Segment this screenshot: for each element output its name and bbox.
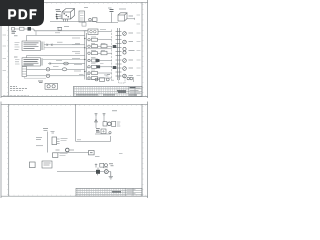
contact CB6 — [88, 72, 90, 74]
relay K7 3d box — [118, 13, 127, 21]
relay row 4 — [72, 59, 112, 63]
K1 terminal leads — [57, 15, 63, 19]
H4 label — [129, 50, 135, 52]
A1 output wire b — [44, 47, 85, 49]
terminal strip X10 — [118, 28, 120, 80]
feed wire row 1 — [27, 35, 85, 41]
contact CB4 — [88, 59, 90, 61]
A2 inner text — [24, 60, 39, 65]
sensor wire row 2 — [27, 75, 85, 77]
H2 label — [129, 41, 134, 43]
junction label — [77, 139, 81, 141]
A1 pin hatch — [41, 42, 44, 51]
lower-left relay box — [30, 162, 36, 168]
A2 output wire b — [48, 63, 85, 65]
aux box on feed — [82, 22, 86, 26]
copyright margin line — [3, 94, 29, 96]
title block page 1 — [74, 86, 143, 96]
starter circle — [109, 132, 111, 134]
row under badge: fuse F2 — [12, 28, 15, 31]
K7 coil wire — [127, 18, 135, 20]
inline fuse oval 2 — [62, 68, 67, 71]
alternator G1 cluster — [95, 119, 116, 126]
starter wire — [95, 133, 111, 135]
inline fuse oval — [64, 62, 69, 65]
switch S2 — [20, 27, 25, 30]
pin label 5.1 — [112, 110, 117, 112]
wire row 2 out — [98, 45, 113, 47]
U1 out label — [100, 28, 106, 30]
wire row 3 out — [98, 52, 113, 54]
A2 output wire a — [43, 59, 85, 61]
node AA label — [110, 10, 114, 12]
wire across to starter area — [57, 171, 97, 173]
connector X11 dashed — [119, 76, 126, 83]
wire b label — [56, 60, 62, 62]
horn unit label — [38, 81, 43, 83]
wire row 5 out — [100, 66, 112, 68]
aux vertical pin — [133, 77, 135, 82]
A2 feed label — [14, 56, 18, 58]
lamp H2 — [123, 40, 127, 44]
contact CB5 — [88, 66, 90, 68]
frame reference ticks page 2 — [8, 105, 147, 195]
row 2 wire label — [72, 44, 80, 46]
wire to G2 — [100, 171, 111, 173]
control unit A2 — [22, 58, 41, 66]
generator circle G2 — [104, 170, 108, 174]
row 1 wire label — [72, 37, 80, 39]
pin drop wires — [96, 116, 104, 128]
G1 text block — [96, 129, 100, 132]
note text block — [10, 87, 27, 91]
connector block X20 — [52, 137, 57, 145]
G1 side text — [117, 122, 121, 126]
H5 label — [129, 59, 134, 61]
junction module dark b — [113, 66, 117, 69]
diode D1 — [89, 18, 92, 21]
contact CB7 — [88, 77, 90, 79]
lamp H3 pair — [123, 47, 126, 50]
battery B+ box — [101, 129, 106, 134]
filled module E4b — [96, 59, 100, 62]
fuse box F1 — [79, 11, 85, 22]
X20 pins — [57, 139, 60, 144]
H1 label — [129, 32, 134, 34]
wire main feed — [50, 21, 96, 23]
U1 label left — [84, 30, 87, 32]
relay row labels — [91, 37, 106, 70]
jumper wire — [35, 31, 37, 36]
relay row 2 — [72, 44, 112, 49]
title block page 2 — [76, 188, 142, 196]
lamp H4 — [123, 51, 126, 54]
relay box E2b — [101, 44, 107, 48]
U1 out wire — [98, 31, 112, 33]
sensor B2 — [46, 74, 49, 77]
long wire to fuel box — [58, 152, 89, 154]
H7 label — [129, 75, 134, 77]
M10 drop — [97, 168, 100, 176]
connector strip X2 — [22, 67, 27, 77]
H6 label — [129, 67, 134, 69]
A1 feed label — [14, 35, 18, 37]
bus tag — [87, 67, 91, 69]
connector X9 dark — [28, 27, 32, 31]
label row — [36, 145, 43, 147]
lamp H1 — [123, 32, 127, 36]
breaker box E7 — [92, 77, 98, 80]
U1 inner contacts — [90, 30, 96, 33]
starter motor M10 — [96, 170, 100, 174]
feed row 1 label — [55, 32, 60, 34]
B1 label — [53, 66, 59, 68]
junction module dark a — [113, 45, 117, 48]
stub wire — [24, 77, 46, 79]
B+ plus mark — [102, 130, 105, 133]
fuel sender box — [89, 151, 95, 155]
relay box E3b — [101, 51, 107, 55]
relay row 1 — [72, 38, 112, 41]
contact CB2 — [88, 45, 90, 47]
frame reference ticks page 1 — [8, 3, 147, 96]
breaker box E5 — [92, 65, 97, 68]
fuse marks — [51, 132, 55, 134]
PDF badge — [0, 0, 44, 26]
contact CB3 — [88, 52, 90, 54]
relay K1 isometric box — [62, 9, 75, 20]
A1 pin tags — [15, 43, 20, 50]
X10 terminal bars — [116, 32, 122, 77]
sensor wire row 1 — [27, 68, 85, 70]
gauge row labels — [86, 75, 114, 81]
row 6 wire label — [74, 70, 81, 72]
G2 cross — [105, 170, 108, 173]
fuel sender mark — [90, 152, 93, 154]
A2 pin tags — [15, 60, 20, 65]
preheat label — [95, 156, 100, 158]
ground GND1 — [109, 172, 113, 179]
A1 output wire a — [44, 44, 85, 46]
left drop wire — [47, 132, 49, 153]
right margin wire tags — [137, 15, 141, 76]
left cluster label MAJ — [43, 129, 48, 131]
gauge P1 — [95, 78, 104, 82]
breaker box E4 — [92, 59, 98, 62]
system boundary line — [111, 30, 113, 81]
control unit A1 — [22, 41, 41, 51]
lamp pair H8 — [127, 77, 133, 80]
lamp H5 — [123, 59, 127, 63]
label 17Ehm — [36, 138, 42, 140]
feed wire row 2 — [27, 56, 85, 58]
page 1 drawing frame — [1, 0, 148, 98]
relay K0 — [93, 18, 98, 22]
breaker box E3 — [92, 52, 98, 55]
regulator U1 box — [88, 29, 98, 35]
lamp H6 — [123, 67, 127, 71]
aux tag right of fuel box — [119, 153, 123, 155]
wire a label — [57, 42, 80, 43]
X20 wire labels — [61, 138, 68, 140]
lamp H7 — [123, 74, 127, 78]
breaker box E2 — [92, 45, 98, 48]
relay row 6 — [74, 71, 112, 75]
wire 2 dashes — [79, 74, 84, 76]
A1 inner text — [24, 43, 39, 49]
sensor pins up arrows — [95, 114, 106, 117]
contact CB1 — [88, 39, 90, 41]
wire to gauges — [86, 79, 99, 81]
wire AA drop — [96, 13, 118, 23]
sensor B1 — [46, 68, 49, 71]
relay row 3 — [72, 51, 112, 55]
sensor row with ring — [56, 148, 75, 152]
row 5 wire label — [74, 64, 82, 66]
A2 pin hatch — [41, 58, 42, 65]
switch drop wires — [64, 19, 68, 22]
wire row 7 out — [98, 77, 113, 79]
row 3 wire label — [72, 51, 80, 53]
relay row 7 — [88, 77, 112, 80]
splice mark b — [50, 62, 52, 64]
K7 label text — [129, 15, 134, 17]
small box on wire — [58, 28, 62, 31]
junction box X21 — [53, 153, 58, 158]
G2 label — [103, 167, 108, 169]
breaker box E6 — [92, 72, 98, 75]
label above wire — [57, 27, 69, 28]
X2 cells — [22, 69, 27, 74]
wire row 4 out — [100, 60, 113, 62]
K1 terminal dots — [56, 13, 69, 19]
splice marks — [47, 44, 53, 46]
wire row 2 aux — [86, 48, 112, 50]
horn B3 component — [45, 83, 58, 89]
filled module E5b — [97, 65, 101, 68]
feed wire from frame top — [76, 105, 111, 142]
preheat row — [95, 163, 114, 167]
wire row 6 out — [98, 72, 113, 74]
row 4 wire label — [72, 58, 80, 60]
left margin wire numbers — [3, 35, 7, 71]
lower-left connector — [42, 161, 52, 168]
center bus pair — [85, 31, 87, 80]
bus junction dots — [84, 38, 85, 72]
label 665 text — [56, 10, 62, 12]
sheet margin texts — [84, 8, 126, 10]
wire row 1 — [15, 29, 89, 31]
feed row 2 label — [75, 52, 80, 54]
X21 labels — [60, 154, 68, 156]
node tag under badge — [12, 32, 17, 34]
page 2 drawing frame — [1, 102, 148, 199]
gauge P2 — [106, 75, 110, 81]
relay row 5 — [74, 65, 112, 69]
wire row 1 out — [98, 39, 113, 41]
breaker box E1 — [92, 38, 98, 41]
